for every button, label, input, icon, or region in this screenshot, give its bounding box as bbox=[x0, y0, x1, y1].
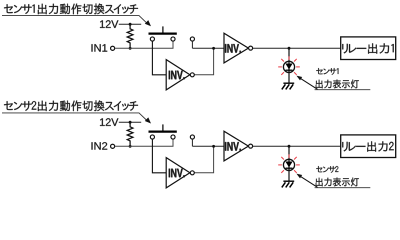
LED D1 cathode bar bbox=[286, 69, 293, 71]
switch SW2 alternate throw terminal circle bbox=[190, 135, 194, 139]
junction resistor / IN1 line bbox=[129, 47, 132, 50]
leader line from title 2 to switch bbox=[2, 113, 146, 120]
junction 12V / resistor bbox=[129, 121, 132, 124]
wire net to inverter U2B input bbox=[192, 145, 224, 147]
label underline (indicator lamp) bbox=[315, 89, 371, 91]
label INV. inside U2B bbox=[225, 142, 241, 151]
leader line from title 1 to switch bbox=[2, 16, 146, 23]
switch SW1 left terminal circle bbox=[150, 37, 154, 41]
label INV. inside U2A bbox=[169, 169, 185, 178]
label IN1 bbox=[92, 44, 108, 51]
ground symbol bbox=[282, 181, 294, 187]
switch SW1 common terminal circle bbox=[171, 37, 175, 41]
leader arrowhead to LED bbox=[296, 174, 302, 179]
label "センサ1出力動作切換スイッチ" (sensor 1 output action selector switch title) bbox=[4, 4, 138, 15]
label "リレー出力1" (relay output 1) bbox=[342, 43, 393, 53]
LED D2 triangle (anode) bbox=[285, 162, 292, 168]
switch SW1 alternate throw terminal circle bbox=[190, 37, 194, 41]
leader arrowhead to LED bbox=[296, 76, 302, 81]
leader arrowhead to switch SW1 bbox=[145, 20, 151, 26]
node 12V label (section 1) bbox=[100, 20, 118, 28]
wire inverter U2A output feedback up to net bbox=[195, 146, 214, 173]
label INV. inside U1A bbox=[169, 71, 185, 80]
switch SW1 actuator bar bbox=[149, 32, 177, 34]
wire alternate throw down to net bbox=[191, 41, 193, 48]
wire U2B output to relay box bbox=[253, 145, 341, 147]
terminal circle IN2 bbox=[111, 144, 115, 148]
junction LED branch bbox=[288, 47, 291, 50]
terminal circle IN1 bbox=[111, 46, 115, 50]
resistor R2 (pull-up) zigzag bbox=[127, 122, 133, 146]
label "センサ2" (sensor 2) bbox=[316, 166, 338, 173]
switch SW2 common terminal circle bbox=[171, 135, 175, 139]
label "出力表示灯" (output indicator lamp) bbox=[316, 178, 359, 187]
wire switch left terminal down to inverter U2A input bbox=[152, 139, 166, 173]
LED light rays (red) bbox=[278, 154, 300, 173]
LED D2 cathode bar bbox=[286, 167, 293, 169]
switch SW2 stem bbox=[162, 124, 164, 132]
label INV. inside U1B bbox=[225, 44, 241, 53]
label "出力表示灯" (output indicator lamp) bbox=[316, 80, 359, 89]
inverter U2B output bubble bbox=[249, 144, 253, 148]
wire alternate throw down to net bbox=[191, 139, 193, 146]
junction net / U1A output bbox=[212, 47, 215, 50]
label "センサ2出力動作切換スイッチ" (sensor 2 output action selector switch title) bbox=[4, 100, 138, 111]
label "センサ1" (sensor 1) bbox=[316, 68, 338, 75]
junction 12V / resistor bbox=[129, 23, 132, 26]
label "リレー出力2" (relay output 2) bbox=[342, 141, 393, 151]
LED light rays (red) bbox=[278, 56, 300, 75]
wire down through LED to ground bbox=[288, 146, 290, 181]
LED D1 circle (output indicator) bbox=[283, 61, 294, 72]
resistor R1 (pull-up) zigzag bbox=[127, 24, 133, 48]
wire IN1 horizontal to switch common bbox=[115, 41, 173, 48]
ground symbol bbox=[282, 83, 294, 89]
wire inverter U1A output feedback up to net bbox=[195, 48, 214, 75]
relay output box リレー出力2 bbox=[341, 135, 396, 158]
inverter U2B (INV) triangle bbox=[224, 131, 248, 161]
inverter U1B (INV) triangle bbox=[224, 33, 248, 63]
switch SW2 actuator bar bbox=[149, 131, 177, 133]
wire 12V supply bbox=[119, 23, 141, 25]
LED D2 circle (output indicator) bbox=[283, 159, 294, 170]
wire 12V supply bbox=[119, 121, 141, 123]
wire IN2 horizontal to switch common bbox=[115, 139, 173, 146]
inverter U1A output bubble bbox=[190, 73, 194, 77]
inverter U2A (INV) triangle bbox=[166, 158, 190, 188]
LED D1 triangle (anode) bbox=[285, 64, 292, 70]
switch SW2 left terminal circle bbox=[150, 135, 154, 139]
label IN2 bbox=[92, 142, 108, 149]
inverter U2A output bubble bbox=[190, 171, 194, 175]
leader line from lamp label to LED bbox=[300, 78, 317, 89]
node 12V label (section 2) bbox=[100, 118, 118, 126]
label underline (indicator lamp) bbox=[315, 187, 371, 189]
relay output box リレー出力1 bbox=[341, 37, 396, 60]
leader line from lamp label to LED bbox=[300, 176, 317, 187]
inverter U1A (INV) triangle bbox=[166, 60, 190, 90]
wire down through LED to ground bbox=[288, 48, 290, 83]
wire net to inverter U1B input bbox=[192, 47, 224, 49]
junction resistor / IN2 line bbox=[129, 145, 132, 148]
leader arrowhead to switch SW2 bbox=[145, 117, 151, 123]
wire U1B output to relay box bbox=[253, 47, 341, 49]
junction net / U2A output bbox=[212, 145, 215, 148]
switch SW1 stem bbox=[162, 26, 164, 34]
inverter U1B output bubble bbox=[249, 46, 253, 50]
wire switch left terminal down to inverter U1A input bbox=[152, 41, 166, 75]
junction LED branch bbox=[288, 145, 291, 148]
